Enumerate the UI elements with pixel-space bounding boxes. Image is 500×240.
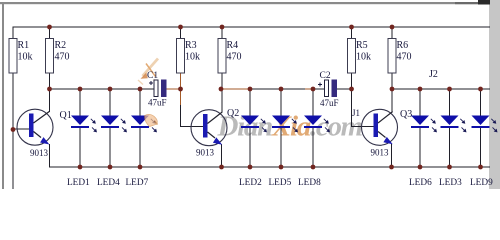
svg-text:470: 470 — [227, 52, 242, 63]
wire: LED5 cathode lead — [280, 127, 282, 167]
svg-text:9013: 9013 — [371, 148, 390, 158]
wire: Q3 emitter lead — [391, 144, 393, 168]
node rail LED8 — [311, 165, 316, 170]
LED LED3 — [441, 116, 467, 133]
wire: LED3 cathode lead — [449, 127, 451, 167]
node R3/top rail — [178, 25, 183, 30]
LED LED2 — [241, 116, 267, 133]
svg-text:10k: 10k — [185, 52, 200, 63]
node rail LED1 — [78, 165, 83, 170]
wire: R5 top lead — [351, 27, 353, 39]
node rail Q3 emitter — [389, 165, 394, 170]
node R2/top rail — [47, 25, 52, 30]
node rail LED5 — [279, 165, 284, 170]
wire: C2 left plate link — [305, 88, 313, 90]
svg-text:LED7: LED7 — [126, 178, 149, 188]
svg-text:R1: R1 — [18, 40, 30, 51]
node bus2 LED5 — [279, 87, 284, 92]
node rail Q2 emitter — [219, 165, 224, 170]
svg-text:9013: 9013 — [196, 148, 215, 158]
node R6/top rail — [390, 25, 395, 30]
resistor R6 — [388, 39, 412, 74]
LED LED4 — [101, 116, 127, 133]
svg-text:10k: 10k — [356, 52, 371, 63]
transistor Q1 — [17, 109, 72, 158]
svg-text:R6: R6 — [397, 40, 409, 51]
LED LED9 — [472, 116, 498, 133]
node R5/top rail — [349, 25, 354, 30]
svg-text:Q3: Q3 — [400, 109, 412, 120]
node bus1 left (R2/Q1 collector) — [47, 87, 52, 92]
node rail LED3 — [447, 165, 452, 170]
LED LED1 — [71, 116, 97, 133]
watermark orange arrow near C1 — [138, 59, 158, 85]
svg-text:47uF: 47uF — [148, 98, 167, 108]
wire: Q1 emitter lead — [49, 144, 51, 168]
node rail LED6 — [418, 165, 423, 170]
node bus2 LED2 — [248, 87, 253, 92]
wire: LED1 anode lead — [79, 89, 81, 116]
wire: R1 bottom lead to base node, continues off-image — [12, 73, 14, 189]
window frame left grey line — [2, 2, 4, 189]
wire: bottom ground rail — [50, 166, 491, 168]
svg-text:9013: 9013 — [30, 148, 49, 158]
svg-text:Q1: Q1 — [60, 110, 72, 121]
window frame top grey line — [0, 2, 490, 4]
wire: bus 1 (Q1 collector bus) — [50, 88, 155, 90]
window frame right grey strip — [489, 0, 500, 189]
capacitor C1 — [147, 71, 167, 108]
wire: bus 2 rest — [250, 88, 325, 90]
svg-text:J2: J2 — [429, 69, 438, 80]
wire: R4 bottom lead — [221, 73, 223, 89]
node bus2 LED8 — [311, 87, 316, 92]
wire: Q2 emitter lead — [221, 144, 223, 167]
wire: LED7 anode lead — [139, 89, 141, 116]
wire: LED2 anode lead — [249, 89, 251, 116]
svg-text:LED4: LED4 — [97, 178, 120, 188]
node rail LED9 — [478, 165, 483, 170]
wire: LED9 cathode lead — [480, 127, 482, 167]
watermark DianXia.com — [217, 111, 363, 143]
LED labels row — [67, 178, 493, 188]
node Q1 base — [11, 127, 16, 132]
transistor Q3 — [362, 109, 413, 158]
wire: R6 bottom lead — [391, 73, 393, 89]
LED LED7 — [131, 116, 157, 133]
node bus2 left (R4/Q2 collector) — [219, 87, 224, 92]
LED LED6 — [411, 116, 437, 133]
svg-text:R5: R5 — [356, 40, 368, 51]
wire: C2 right plate to stage3 base node — [337, 88, 352, 90]
wire: R6 top lead — [391, 27, 393, 39]
wire: R5 bottom lead — [351, 73, 353, 89]
junction dots top rail — [11, 25, 483, 170]
wire: LED5 anode lead — [280, 89, 282, 116]
wire: Q1 collector lead — [49, 89, 51, 112]
window frame top-right dark blob — [478, 0, 490, 5]
wire: LED7 cathode lead — [139, 127, 141, 167]
resistor R1 — [9, 39, 33, 74]
svg-text:LED8: LED8 — [298, 178, 321, 188]
svg-text:R2: R2 — [55, 40, 67, 51]
wire: LED1 cathode lead — [79, 127, 81, 167]
node bus1 LED1 — [78, 87, 83, 92]
wire: LED3 anode lead — [449, 89, 451, 116]
wire: LED6 cathode lead — [419, 127, 421, 167]
svg-text:Q2: Q2 — [227, 108, 239, 119]
resistor R2 — [46, 39, 70, 74]
wire: stage2 base drop — [180, 89, 182, 105]
node rail LED2 — [248, 165, 253, 170]
svg-text:LED9: LED9 — [470, 178, 493, 188]
wire: R2 bottom lead — [49, 73, 51, 89]
node bus1 LED4 — [108, 87, 113, 92]
wire: LED8 cathode lead — [312, 127, 314, 167]
svg-text:LED6: LED6 — [409, 178, 432, 188]
wire: LED8 anode lead — [312, 89, 314, 116]
wire: LED4 anode lead — [109, 89, 111, 116]
svg-text:R3: R3 — [185, 40, 197, 51]
wire: C1 right plate to stage2 base node — [166, 88, 181, 90]
wire: R4 top lead — [221, 27, 223, 39]
wire: stage3 base drop and run to Q3 base — [352, 89, 374, 127]
wire: R1 top lead — [12, 27, 14, 39]
svg-text:470: 470 — [55, 52, 70, 63]
svg-text:47uF: 47uF — [320, 98, 339, 108]
svg-text:470: 470 — [397, 52, 412, 63]
svg-text:R4: R4 — [227, 40, 239, 51]
wire: LED9 anode lead — [480, 89, 482, 116]
wire: stage2 base drop lower + run to Q2 base — [181, 105, 204, 127]
node bus3 left (R6/Q3 collector) — [390, 87, 395, 92]
svg-text:LED5: LED5 — [269, 178, 292, 188]
wire: R2 top lead — [49, 27, 51, 39]
watermark orange arrow near LED7 — [145, 114, 158, 126]
svg-text:LED3: LED3 — [439, 178, 462, 188]
wire: LED6 anode lead — [419, 89, 421, 116]
resistor R3 — [177, 39, 201, 74]
wire: R3 bottom lead — [180, 73, 182, 89]
node rail LED7 — [138, 165, 143, 170]
LED LED8 — [304, 116, 330, 133]
wire: LED2 cathode lead — [249, 127, 251, 167]
node stage3 base (R5/C2) — [349, 87, 354, 92]
transistor Q2 — [191, 108, 239, 158]
svg-text:10k: 10k — [18, 52, 33, 63]
svg-text:J1: J1 — [352, 108, 360, 118]
node stage2 base (R3/C1) — [178, 87, 183, 92]
wire: bus 2 (Q2 collector bus) first segment — [221, 88, 250, 90]
wire: bus 3 (Q3 collector bus) — [392, 88, 490, 90]
node rail LED4 — [108, 165, 113, 170]
wire: Q2 collector lead — [221, 89, 223, 113]
wire: Q1 base wire — [13, 128, 29, 130]
svg-text:LED1: LED1 — [67, 178, 90, 188]
node bus1 LED7/C1 — [138, 87, 143, 92]
resistor R4 — [218, 39, 242, 74]
node R4/top rail — [220, 25, 225, 30]
capacitor C2 — [318, 71, 339, 108]
wire: top power rail — [13, 26, 490, 28]
wire: LED4 cathode lead — [109, 127, 111, 167]
wire: Q3 collector lead — [391, 89, 393, 112]
node bus3 LED3 — [447, 87, 452, 92]
LED LED5 — [272, 116, 298, 133]
node bus3 LED9 — [478, 87, 483, 92]
wire: R3 top lead — [180, 27, 182, 39]
resistor R5 — [348, 39, 372, 74]
svg-text:LED2: LED2 — [239, 178, 262, 188]
node bus3 LED6 — [418, 87, 423, 92]
